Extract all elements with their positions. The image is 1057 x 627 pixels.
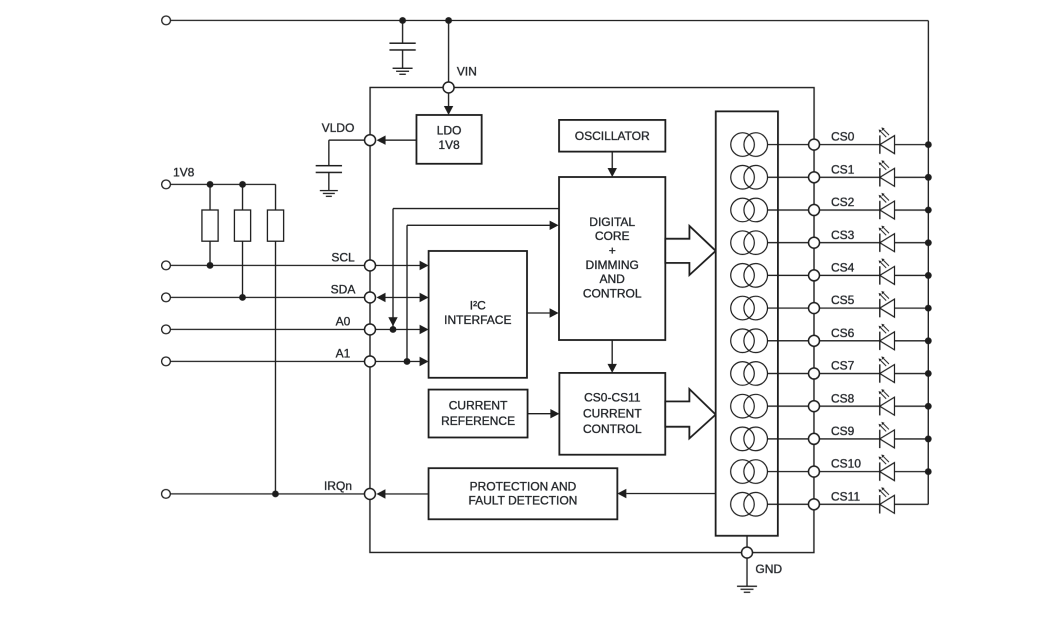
junction VIN bbox=[445, 17, 452, 24]
wire LED D9 anode to rail bbox=[894, 438, 928, 440]
junction rail CS2 bbox=[925, 207, 932, 214]
svg-text:CS7: CS7 bbox=[831, 359, 855, 373]
label A1 bbox=[336, 347, 351, 361]
svg-text:LDO: LDO bbox=[437, 124, 462, 138]
label CS5 bbox=[831, 293, 855, 307]
label CS10 bbox=[831, 457, 861, 471]
current source CS3 bbox=[731, 231, 768, 255]
wire A1 bbox=[170, 360, 364, 362]
current source CS7 bbox=[731, 362, 768, 386]
LED D7 bbox=[879, 356, 895, 382]
LED D10 bbox=[879, 455, 895, 481]
wire oscillator to digital core bbox=[608, 152, 617, 177]
wire pin CS7 to LED bbox=[819, 373, 879, 375]
junction rail CS3 bbox=[925, 239, 932, 246]
junction rail CS6 bbox=[925, 337, 932, 344]
wire A1 to I2C bbox=[375, 357, 428, 366]
svg-text:+: + bbox=[609, 244, 616, 258]
svg-text:GND: GND bbox=[755, 562, 782, 576]
ground C2 bbox=[320, 191, 338, 197]
svg-text:SCL: SCL bbox=[331, 251, 355, 265]
svg-text:1V8: 1V8 bbox=[438, 138, 460, 152]
pin IRQn bbox=[364, 488, 375, 499]
wire CS0 to pin bbox=[768, 144, 809, 146]
svg-text:CS4: CS4 bbox=[831, 261, 855, 275]
junction A1 branch bbox=[404, 358, 411, 365]
LED D0 bbox=[879, 128, 895, 154]
wire CS6 to pin bbox=[767, 340, 808, 342]
label IRQn bbox=[324, 479, 352, 493]
bus arrow current control to sink bank bbox=[665, 389, 715, 438]
wire pin CS2 to LED bbox=[820, 209, 880, 211]
wire IRQn bbox=[170, 493, 364, 495]
pin CS6 bbox=[808, 335, 819, 346]
svg-text:PROTECTION AND: PROTECTION AND bbox=[470, 479, 577, 493]
pin CS5 bbox=[808, 303, 819, 314]
junction R1 top bbox=[207, 181, 214, 188]
svg-text:IRQn: IRQn bbox=[324, 479, 352, 493]
block current reference bbox=[429, 390, 528, 438]
resistor R3 bbox=[267, 184, 283, 494]
svg-text:DIGITAL: DIGITAL bbox=[589, 215, 635, 229]
svg-text:CURRENT: CURRENT bbox=[449, 398, 508, 412]
junction rail CS1 bbox=[925, 174, 932, 181]
wire CS1 to pin bbox=[768, 176, 809, 178]
wire LED D2 anode to rail bbox=[895, 209, 929, 211]
wire CS8 to pin bbox=[767, 405, 808, 407]
junction rail CS4 bbox=[925, 272, 932, 279]
wire pin CS1 to LED bbox=[820, 176, 880, 178]
LED D9 bbox=[879, 422, 895, 448]
wire 1V8 rail bbox=[170, 183, 275, 185]
current source CS11 bbox=[731, 492, 768, 516]
label VIN bbox=[457, 64, 477, 78]
wire LED D11 anode to rail bbox=[894, 503, 928, 505]
block LDO U2 bbox=[416, 115, 481, 164]
IC boundary U1 bbox=[370, 87, 814, 552]
wire top supply rail bbox=[170, 20, 928, 504]
wire current reference to current control bbox=[528, 409, 560, 418]
wire pin CS4 to LED bbox=[820, 274, 880, 276]
svg-text:CONTROL: CONTROL bbox=[583, 422, 642, 436]
wire LED D7 anode to rail bbox=[894, 373, 928, 375]
block protection and fault detection bbox=[429, 468, 618, 519]
label CS8 bbox=[831, 391, 855, 405]
LED D4 bbox=[879, 258, 895, 284]
capacitor C1 bbox=[389, 20, 415, 68]
label SDA bbox=[331, 283, 356, 297]
terminal SCL bbox=[162, 261, 171, 270]
bus arrow digital core to sink bank bbox=[665, 226, 715, 275]
pin GND bbox=[742, 547, 753, 558]
terminal A1 bbox=[162, 357, 171, 366]
label A0 bbox=[336, 315, 351, 329]
svg-text:CS9: CS9 bbox=[831, 424, 855, 438]
pin CS0 bbox=[809, 139, 820, 150]
wire pin CS5 to LED bbox=[820, 307, 880, 309]
LED D1 bbox=[879, 160, 895, 186]
pin SDA bbox=[365, 292, 376, 303]
label CS1 bbox=[831, 163, 855, 177]
pin VLDO bbox=[365, 135, 376, 146]
wire VIN drop bbox=[448, 20, 450, 82]
wire LED D8 anode to rail bbox=[894, 405, 928, 407]
wire bank to GND pin bbox=[746, 536, 748, 547]
wire GND pin to ground bbox=[746, 558, 748, 586]
wire A1 net to digital core bbox=[407, 221, 559, 362]
wire pin CS8 to LED bbox=[819, 405, 879, 407]
resistor R1 bbox=[202, 184, 218, 265]
junction rail CS10 bbox=[925, 468, 932, 475]
label 1V8 bbox=[173, 165, 195, 179]
junction R3 IRQn bbox=[272, 491, 279, 498]
svg-text:CURRENT: CURRENT bbox=[583, 406, 642, 420]
junction R2 SDA bbox=[239, 294, 246, 301]
wire pin CS11 to LED bbox=[819, 503, 879, 505]
svg-text:DIMMING: DIMMING bbox=[586, 258, 639, 272]
terminal top supply bbox=[162, 16, 171, 25]
svg-text:CS10: CS10 bbox=[831, 457, 861, 471]
junction R2 top bbox=[239, 181, 246, 188]
terminal IRQn bbox=[162, 489, 171, 498]
label CS7 bbox=[831, 359, 855, 373]
svg-text:CS0: CS0 bbox=[831, 130, 855, 144]
wire SCL to I2C bbox=[376, 261, 429, 270]
pin SCL bbox=[365, 260, 376, 271]
current source CS0 bbox=[731, 133, 768, 157]
terminal SDA bbox=[162, 293, 171, 302]
wire LED D5 anode to rail bbox=[895, 307, 929, 309]
wire CS7 to pin bbox=[767, 372, 808, 374]
wire LED D3 anode to rail bbox=[895, 242, 929, 244]
svg-text:CS1: CS1 bbox=[831, 163, 855, 177]
svg-text:AND: AND bbox=[600, 272, 626, 286]
svg-text:A0: A0 bbox=[336, 315, 351, 329]
wire LED D0 anode to rail bbox=[895, 144, 929, 146]
junction A0 branch bbox=[390, 326, 397, 333]
svg-text:CS2: CS2 bbox=[831, 195, 855, 209]
wire CS4 to pin bbox=[768, 274, 809, 276]
wire SDA to I2C bidirectional bbox=[377, 293, 429, 302]
junction input cap bbox=[399, 17, 406, 24]
svg-text:CS3: CS3 bbox=[831, 228, 855, 242]
wire VIN to LDO bbox=[444, 93, 453, 115]
svg-text:CONTROL: CONTROL bbox=[583, 287, 642, 301]
label CS3 bbox=[831, 228, 855, 242]
wire CS11 to pin bbox=[767, 503, 808, 505]
svg-text:INTERFACE: INTERFACE bbox=[444, 313, 511, 327]
LED D6 bbox=[879, 324, 895, 350]
junction rail CS7 bbox=[925, 370, 932, 377]
pin VIN bbox=[443, 82, 454, 93]
junction rail CS9 bbox=[925, 436, 932, 443]
LED D5 bbox=[879, 291, 895, 317]
svg-text:CS11: CS11 bbox=[831, 490, 860, 504]
svg-text:VLDO: VLDO bbox=[322, 121, 355, 135]
block oscillator bbox=[559, 120, 665, 152]
current source CS8 bbox=[731, 394, 768, 418]
pin CS10 bbox=[808, 466, 819, 477]
svg-text:1V8: 1V8 bbox=[173, 165, 195, 179]
resistor R2 bbox=[234, 184, 250, 297]
wire pin CS0 to LED bbox=[820, 144, 880, 146]
wire bank to protection bbox=[617, 489, 715, 498]
wire CS5 to pin bbox=[768, 307, 809, 309]
pin A1 bbox=[364, 356, 375, 367]
wire pin CS3 to LED bbox=[820, 242, 880, 244]
wire digital core to current control bbox=[607, 340, 616, 373]
svg-text:A1: A1 bbox=[336, 347, 351, 361]
svg-text:OSCILLATOR: OSCILLATOR bbox=[575, 129, 650, 143]
wire SCL bbox=[170, 264, 364, 266]
wire SDA bbox=[170, 296, 364, 298]
label CS9 bbox=[831, 424, 855, 438]
pin CS9 bbox=[808, 433, 819, 444]
label SCL bbox=[331, 251, 355, 265]
pin CS11 bbox=[808, 499, 819, 510]
wire CS9 to pin bbox=[767, 438, 808, 440]
wire I2C to digital core bbox=[527, 308, 559, 317]
svg-text:REFERENCE: REFERENCE bbox=[441, 414, 515, 428]
LED D2 bbox=[879, 193, 895, 219]
current source CS6 bbox=[731, 329, 768, 353]
pin CS8 bbox=[808, 401, 819, 412]
junction R1 SCL bbox=[207, 262, 214, 269]
wire LED D1 anode to rail bbox=[895, 176, 929, 178]
current source CS5 bbox=[731, 296, 768, 320]
wire pin CS6 to LED bbox=[819, 340, 879, 342]
wire LED D6 anode to rail bbox=[894, 340, 928, 342]
svg-text:CS0-CS11: CS0-CS11 bbox=[584, 391, 641, 405]
wire A0 to I2C bbox=[375, 325, 428, 334]
wire pin CS10 to LED bbox=[819, 471, 879, 473]
wire CS2 to pin bbox=[768, 209, 809, 211]
pin A0 bbox=[364, 324, 375, 335]
current source CS4 bbox=[731, 264, 768, 288]
block current sink bank bbox=[716, 111, 778, 535]
wire CS10 to pin bbox=[767, 471, 808, 473]
terminal 1V8 bbox=[162, 180, 171, 189]
pin CS1 bbox=[809, 172, 820, 183]
svg-text:SDA: SDA bbox=[331, 283, 356, 297]
LED D8 bbox=[879, 389, 895, 415]
wire A0 net to digital core bbox=[388, 209, 558, 330]
wire CS3 to pin bbox=[768, 242, 809, 244]
junction rail CS5 bbox=[925, 305, 932, 312]
LED D11 bbox=[879, 487, 895, 513]
pin CS3 bbox=[809, 237, 820, 248]
block I2C interface bbox=[429, 251, 527, 378]
svg-text:I²C: I²C bbox=[470, 298, 486, 312]
svg-text:CS5: CS5 bbox=[831, 293, 855, 307]
label CS0 bbox=[831, 130, 855, 144]
ground C1 bbox=[393, 68, 413, 74]
wire VLDO to C2 bbox=[329, 139, 365, 141]
svg-text:CORE: CORE bbox=[595, 229, 630, 243]
terminal A0 bbox=[162, 325, 171, 334]
wire protection to IRQn bbox=[376, 489, 428, 498]
svg-text:FAULT DETECTION: FAULT DETECTION bbox=[468, 493, 577, 507]
wire LDO to VLDO pin bbox=[377, 135, 417, 144]
wire LED D10 anode to rail bbox=[894, 471, 928, 473]
pin CS7 bbox=[808, 368, 819, 379]
junction rail CS0 bbox=[925, 141, 932, 148]
current source CS2 bbox=[731, 198, 768, 222]
ground GND bbox=[737, 586, 757, 592]
svg-text:CS6: CS6 bbox=[831, 326, 855, 340]
label VLDO bbox=[322, 121, 355, 135]
svg-text:VIN: VIN bbox=[457, 64, 477, 78]
current source CS9 bbox=[731, 427, 768, 451]
wire LED D4 anode to rail bbox=[895, 274, 929, 276]
current source CS1 bbox=[731, 165, 768, 189]
current source CS10 bbox=[731, 460, 768, 484]
label CS11 bbox=[831, 490, 860, 504]
pin CS2 bbox=[809, 204, 820, 215]
block CS0-CS11 current control bbox=[559, 373, 665, 455]
LED D3 bbox=[879, 226, 895, 252]
label CS2 bbox=[831, 195, 855, 209]
junction rail CS8 bbox=[925, 403, 932, 410]
svg-text:CS8: CS8 bbox=[831, 391, 855, 405]
label CS4 bbox=[831, 261, 855, 275]
label GND bbox=[755, 562, 782, 576]
wire A0 bbox=[170, 328, 364, 330]
block digital core bbox=[559, 177, 665, 340]
pin CS4 bbox=[809, 270, 820, 281]
wire pin CS9 to LED bbox=[819, 438, 879, 440]
capacitor C2 bbox=[316, 140, 342, 190]
label CS6 bbox=[831, 326, 855, 340]
